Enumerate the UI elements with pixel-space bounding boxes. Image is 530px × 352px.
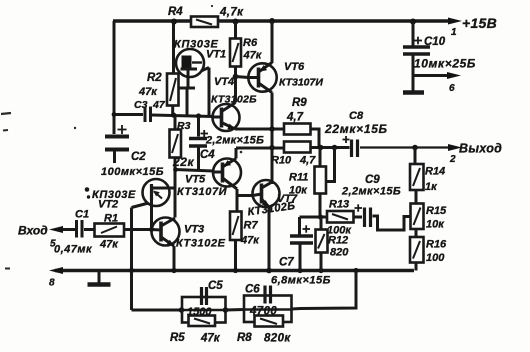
node A junction R4 left (171, 19, 177, 25)
svg-text:R11: R11 (289, 172, 308, 184)
wire C3 to VT4 base (152, 115, 213, 117)
svg-text:КТ3102Б: КТ3102Б (211, 94, 257, 106)
resistor R15 (411, 204, 424, 230)
svg-text:47к: 47к (99, 239, 119, 251)
node R6 bottom / VT6 base junction (233, 74, 239, 80)
svg-text:R8: R8 (237, 332, 252, 344)
wire VT5 collector to R7 (236, 189, 239, 212)
svg-text:0,47мк: 0,47мк (54, 244, 93, 256)
wire VT7 emitter to ground rail (268, 207, 271, 271)
svg-text:С8: С8 (349, 110, 364, 122)
wire R3 bottom main vertical (174, 158, 177, 218)
wire VT6 emitter to rail (271, 21, 274, 63)
resistor R7 (230, 212, 242, 241)
wire R1 to VT3 base (124, 228, 152, 231)
capacitor C4 (189, 116, 208, 170)
svg-text:R9: R9 (292, 97, 307, 109)
svg-text:47к: 47к (240, 235, 260, 247)
wire R10 right (311, 146, 320, 149)
svg-text:R13: R13 (329, 199, 349, 211)
wire R16 bottom (415, 263, 418, 271)
node output arrow (448, 144, 462, 151)
svg-text:22мк×15Б: 22мк×15Б (324, 122, 388, 136)
svg-text:R7: R7 (244, 220, 259, 232)
svg-text:R2: R2 (147, 72, 162, 84)
wire R15-R16 (415, 229, 418, 237)
node C junction VT6 emitter rail (269, 18, 275, 24)
svg-text:1к: 1к (425, 181, 438, 193)
svg-text:8: 8 (49, 278, 55, 289)
capacitor C1 (77, 220, 95, 238)
svg-text:Вход: Вход (18, 224, 48, 238)
wire R5 to R8 (226, 308, 245, 312)
transistor VT3 (152, 218, 180, 247)
svg-text:КТ3102Е: КТ3102Е (176, 238, 226, 250)
transistor VT4 (212, 77, 240, 132)
node R5 left junction (179, 307, 185, 313)
wire VT2 source down (130, 208, 133, 271)
svg-text:47к: 47к (243, 50, 263, 62)
node B junction R4 right / R6 top (233, 19, 239, 25)
svg-text:6,8мк×15Б: 6,8мк×15Б (271, 275, 331, 287)
wire VT5 emitter to R10 (236, 147, 284, 150)
node +15V arrow (448, 18, 462, 25)
svg-text:1: 1 (451, 27, 457, 38)
wire VT6 collector vertical (271, 93, 274, 185)
wire R7 bottom (234, 240, 237, 271)
svg-text:100: 100 (426, 252, 445, 264)
resistor R13 (327, 211, 354, 223)
capacitor C6 with resistor R8 parallel (244, 286, 292, 323)
svg-text:Выход: Выход (459, 142, 502, 156)
svg-text:С2: С2 (131, 151, 146, 163)
wire VT1 drain from rail (172, 21, 175, 74)
wire R2 bottom (171, 106, 174, 115)
wire ground rail (55, 269, 414, 273)
node output junctions (318, 145, 418, 151)
resistor R2 (167, 74, 179, 106)
svg-text:VT3: VT3 (184, 224, 204, 236)
capacitor C8 (343, 136, 358, 157)
resistor R1 (95, 224, 125, 237)
node rail-left junction to C2 branch (113, 21, 116, 134)
svg-text:R12: R12 (328, 235, 348, 247)
wire VT4 emitter to R9 (235, 128, 284, 131)
svg-text:R5: R5 (170, 332, 185, 344)
svg-text:VT1: VT1 (206, 49, 226, 61)
wire speck marks from scan (1, 5, 242, 269)
svg-text:4,7: 4,7 (299, 155, 316, 167)
label VT2 mark (85, 187, 90, 192)
input arrow Vhod (49, 226, 75, 233)
node R3/VT5 base junction (173, 167, 178, 172)
svg-text:С7: С7 (279, 257, 294, 269)
svg-text:VT2: VT2 (98, 199, 118, 211)
svg-text:22к: 22к (172, 155, 195, 169)
svg-text:1500: 1500 (187, 306, 212, 318)
svg-text:10мк×25Б: 10мк×25Б (414, 57, 476, 71)
resistor R11 (315, 148, 327, 218)
resistor R16 (410, 237, 424, 263)
wire VT5 base (175, 170, 213, 172)
svg-text:10к: 10к (426, 219, 445, 231)
svg-text:VT4: VT4 (214, 76, 234, 88)
capacitor C3 (114, 107, 151, 123)
resistor R9 (284, 124, 311, 135)
svg-text:2,2мк×15Б: 2,2мк×15Б (205, 135, 264, 147)
wire VT6 base (236, 77, 249, 78)
node rail junctions (129, 268, 359, 274)
svg-text:4700: 4700 (249, 306, 277, 318)
wire terminal 6 arrow (413, 72, 461, 79)
svg-text:2,2мк×15Б: 2,2мк×15Б (341, 186, 401, 198)
wire C8 to output arrow (360, 146, 450, 148)
resistor R14 (410, 148, 424, 191)
svg-text:VT5: VT5 (185, 174, 206, 186)
svg-text:R1: R1 (104, 213, 118, 225)
svg-text:С5: С5 (208, 280, 223, 292)
svg-text:С6: С6 (245, 284, 260, 296)
transistor VT6 (248, 63, 276, 93)
svg-text:2: 2 (449, 154, 456, 165)
resistor R8 (255, 316, 284, 327)
svg-text:R4: R4 (168, 6, 183, 18)
ground symbol left (88, 271, 111, 285)
capacitor C7 (290, 217, 313, 271)
wire VT7 base (237, 194, 253, 197)
resistor R3 (170, 130, 182, 158)
wire R3 top (174, 117, 177, 130)
svg-text:R16: R16 (426, 239, 447, 251)
resistor R6 (230, 21, 241, 77)
node R11 bottom junction (318, 214, 323, 219)
svg-text:6: 6 (449, 83, 455, 94)
svg-text:4,7: 4,7 (286, 112, 304, 124)
resistor R5 (189, 316, 216, 327)
node VT4em/R9 junction (269, 126, 275, 132)
wire R14-R15 (415, 190, 418, 204)
svg-text:R3: R3 (177, 120, 191, 132)
capacitor C5 with resistor R5 parallel (182, 287, 226, 323)
svg-text:47к: 47к (200, 333, 221, 345)
node D junction C10 top (410, 19, 416, 25)
ground bar under C10 (403, 90, 424, 94)
capacitor C10 (403, 21, 430, 92)
wire stub from output to R11 right (326, 148, 335, 182)
svg-text:R6: R6 (243, 37, 258, 49)
svg-text:С4: С4 (200, 149, 215, 161)
resistor R10 (284, 142, 311, 153)
svg-text:С3: С3 (134, 99, 148, 111)
svg-text:С10: С10 (424, 36, 446, 48)
wire R9 right (311, 129, 320, 148)
svg-text:R14: R14 (425, 166, 445, 178)
node VT5em/R10 junction (269, 145, 275, 151)
svg-text:820к: 820к (264, 333, 291, 345)
node VT2 gate junction (149, 227, 154, 232)
wire output line with C8 (319, 146, 350, 149)
resistor R12 (316, 217, 328, 271)
svg-text:100мк×15Б: 100мк×15Б (101, 166, 164, 178)
capacitor C2 (105, 125, 129, 163)
svg-text:КТ3107И: КТ3107И (279, 77, 323, 89)
wire feedback lower left (130, 271, 133, 311)
node C4 top junction (196, 113, 201, 118)
svg-text:VT6: VT6 (284, 61, 305, 73)
node R5 right junction (223, 307, 229, 313)
node ground rail arrow (49, 267, 63, 274)
transistor VT7 (253, 180, 280, 207)
svg-text:R15: R15 (426, 205, 447, 217)
svg-text:4,7к: 4,7к (219, 7, 244, 19)
wire top +15V rail (113, 19, 450, 22)
wire C9 to R15 zigzag (373, 216, 411, 230)
wire R13 node (300, 216, 328, 219)
resistor R4 (191, 17, 218, 28)
svg-text:С9: С9 (365, 174, 380, 186)
wire R8 right to rail (292, 271, 357, 310)
svg-text:47: 47 (152, 99, 166, 111)
capacitor C9 (354, 204, 371, 227)
svg-text:КТ3107И: КТ3107И (177, 186, 228, 198)
svg-text:47к: 47к (138, 86, 158, 98)
node R2/R3 junction (171, 112, 176, 117)
wire VT3 emitter to rail (173, 246, 176, 271)
svg-text:С1: С1 (75, 209, 89, 221)
transistor VT2 (FET KP303E) (132, 179, 176, 230)
svg-text:КТ3102Б: КТ3102Б (247, 200, 296, 219)
svg-text:+15В: +15В (462, 15, 497, 31)
transistor VT5 (213, 148, 241, 189)
node C3/C2 junction (112, 112, 117, 117)
svg-text:820: 820 (330, 247, 349, 259)
svg-text:R10: R10 (271, 155, 292, 167)
transistor VT1 (FET KP303E) (176, 49, 209, 116)
